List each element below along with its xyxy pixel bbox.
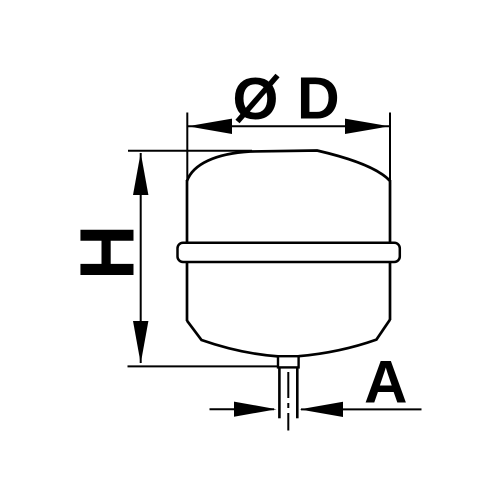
A dim arrowhead pointing right <box>234 402 277 417</box>
diameter dim line <box>188 125 389 127</box>
diameter dim: right extension line <box>389 113 391 181</box>
H dim arrowhead down <box>133 321 148 364</box>
pipe centerline (dashed) <box>287 372 289 431</box>
diameter dim: left extension line <box>186 113 188 181</box>
A dim: right leader line <box>301 408 422 410</box>
label Ø : slash stroke <box>238 76 278 122</box>
pipe body left line <box>278 367 281 418</box>
svg-text:H: H <box>65 224 151 280</box>
tank bottom taper left <box>187 321 278 357</box>
H dim: top extension line <box>128 150 252 152</box>
A dim arrowhead pointing left <box>300 402 343 417</box>
diameter dim arrowhead right <box>345 119 389 134</box>
flange band <box>178 243 400 262</box>
pipe body right line <box>296 367 299 418</box>
tank bottom taper right <box>299 320 390 357</box>
H dim line <box>140 153 142 363</box>
tank right side wall <box>389 180 392 320</box>
diameter dim arrowhead left <box>188 119 232 134</box>
tank dome (top outline) <box>187 151 390 182</box>
svg-text:A: A <box>364 349 407 416</box>
svg-text:D: D <box>297 66 340 132</box>
H dim arrowhead up <box>133 153 148 195</box>
pipe collar <box>278 356 299 367</box>
tank left side wall <box>186 180 189 321</box>
H dim: bottom extension line <box>128 365 278 367</box>
A dim: left leader line <box>210 408 275 410</box>
